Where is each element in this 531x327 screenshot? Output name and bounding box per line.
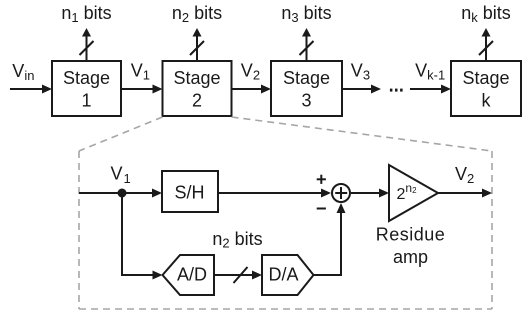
svg-text:D/A: D/A [268,265,298,285]
block Stage k [451,61,521,116]
svg-text:nk bits: nk bits [461,3,511,25]
svg-text:A/D: A/D [177,265,207,285]
wire V2 stage2 to stage3 [232,85,272,94]
wire V2 output [438,189,492,198]
svg-text:1: 1 [81,91,91,111]
wire stage2 digital output arrow with slash [190,28,204,61]
wire V3 from stage3 [342,85,381,94]
wire summer to residue amp [351,189,389,198]
svg-text:S/H: S/H [174,183,204,203]
wire Vk-1 into stage k [410,85,451,94]
svg-text:amp: amp [393,247,428,267]
svg-text:n1 bits: n1 bits [61,3,111,25]
block S/H [162,171,218,212]
svg-text:n2 bits: n2 bits [212,229,262,251]
wire stage1 digital output arrow with slash [80,28,94,61]
svg-text:Stage: Stage [63,68,110,88]
node plus sign label [317,175,326,184]
svg-text:Residue: Residue [376,225,446,245]
block Stage 3 [271,61,342,116]
wire junction down to A/D [122,193,163,280]
wire D/A up to summer [314,203,346,275]
wire Vin input [10,85,52,94]
svg-text:n3 bits: n3 bits [281,3,331,25]
D/A converter block [262,255,314,295]
wire dashed callout lines from stage 2 [79,117,492,309]
svg-text:3: 3 [301,91,311,111]
op-amp residue amplifier triangle [389,165,438,221]
svg-text:n2 bits: n2 bits [172,3,222,25]
wire stage3 digital output arrow with slash [300,28,314,61]
svg-text:k: k [482,91,492,111]
svg-text:2: 2 [192,91,202,111]
wire stage k digital output arrow with slash [479,28,493,61]
summer (summing junction) [332,184,350,202]
svg-text:Stage: Stage [173,68,220,88]
wire S/H to summer [218,189,331,198]
node minus sign label [317,208,326,210]
node ellipsis dots [390,89,403,92]
svg-text:Stage: Stage [462,68,509,88]
block Stage 2 [163,61,232,116]
A/D converter block [163,255,215,295]
svg-text:Stage: Stage [283,68,330,88]
block Stage 1 [52,61,121,116]
wire A/D to D/A with slash [214,267,262,283]
wire V1 into S/H [79,189,162,198]
wire V1 stage1 to stage2 [121,85,163,94]
node junction dot V1 [118,189,127,198]
